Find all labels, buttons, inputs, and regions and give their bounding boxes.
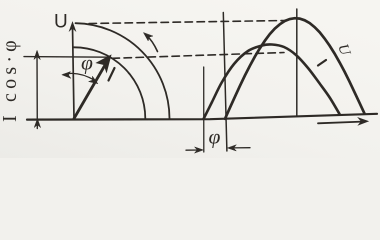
phasor I arrowhead: [97, 55, 111, 72]
svg-text:I cos·φ: I cos·φ: [0, 36, 21, 122]
axis line at I zero crossing (left vertical of time plot): [203, 67, 205, 152]
phi angle arc with arrowheads: [64, 73, 96, 80]
dashed line: U amplitude level to sine peak: [89, 21, 285, 24]
wire: I cos phi projection level line: [24, 56, 110, 59]
phasor I (thick vector from origin): [74, 63, 107, 119]
paper background: [0, 0, 380, 158]
time axis arrow (bottom right): [318, 122, 362, 124]
node O: U axis (vertical) of phasor diagram: [73, 26, 75, 119]
U axis arrowhead: [69, 22, 75, 31]
svg-text:U: U: [54, 12, 68, 33]
dimension arrow left (points right at I zero line): [186, 149, 200, 151]
sine curve U (larger amplitude): [225, 18, 365, 119]
label I (time plot): [318, 60, 326, 66]
svg-text:φ: φ: [81, 51, 93, 75]
inner arc (locus of I phasor tip, radius 71.3): [74, 47, 146, 118]
svg-text:φ: φ: [209, 125, 221, 149]
sine curve I (smaller amplitude): [204, 44, 340, 119]
dashed line: I amplitude level from phasor tip: [112, 53, 284, 59]
rotation direction arrow (counter-clockwise): [146, 35, 158, 52]
vertical line through U peak: [296, 9, 298, 116]
wire: common baseline (zero line of phasor diagram and time axis): [27, 114, 377, 120]
outer arc (locus of U phasor tip, radius 95.5): [76, 23, 170, 118]
axis line at U zero crossing (full-height vertical): [223, 13, 227, 152]
label I (phasor): [109, 68, 115, 81]
dimension line I cos phi (vertical, with arrows): [36, 52, 38, 129]
dimension arrow right (points left at U zero line): [232, 147, 250, 149]
